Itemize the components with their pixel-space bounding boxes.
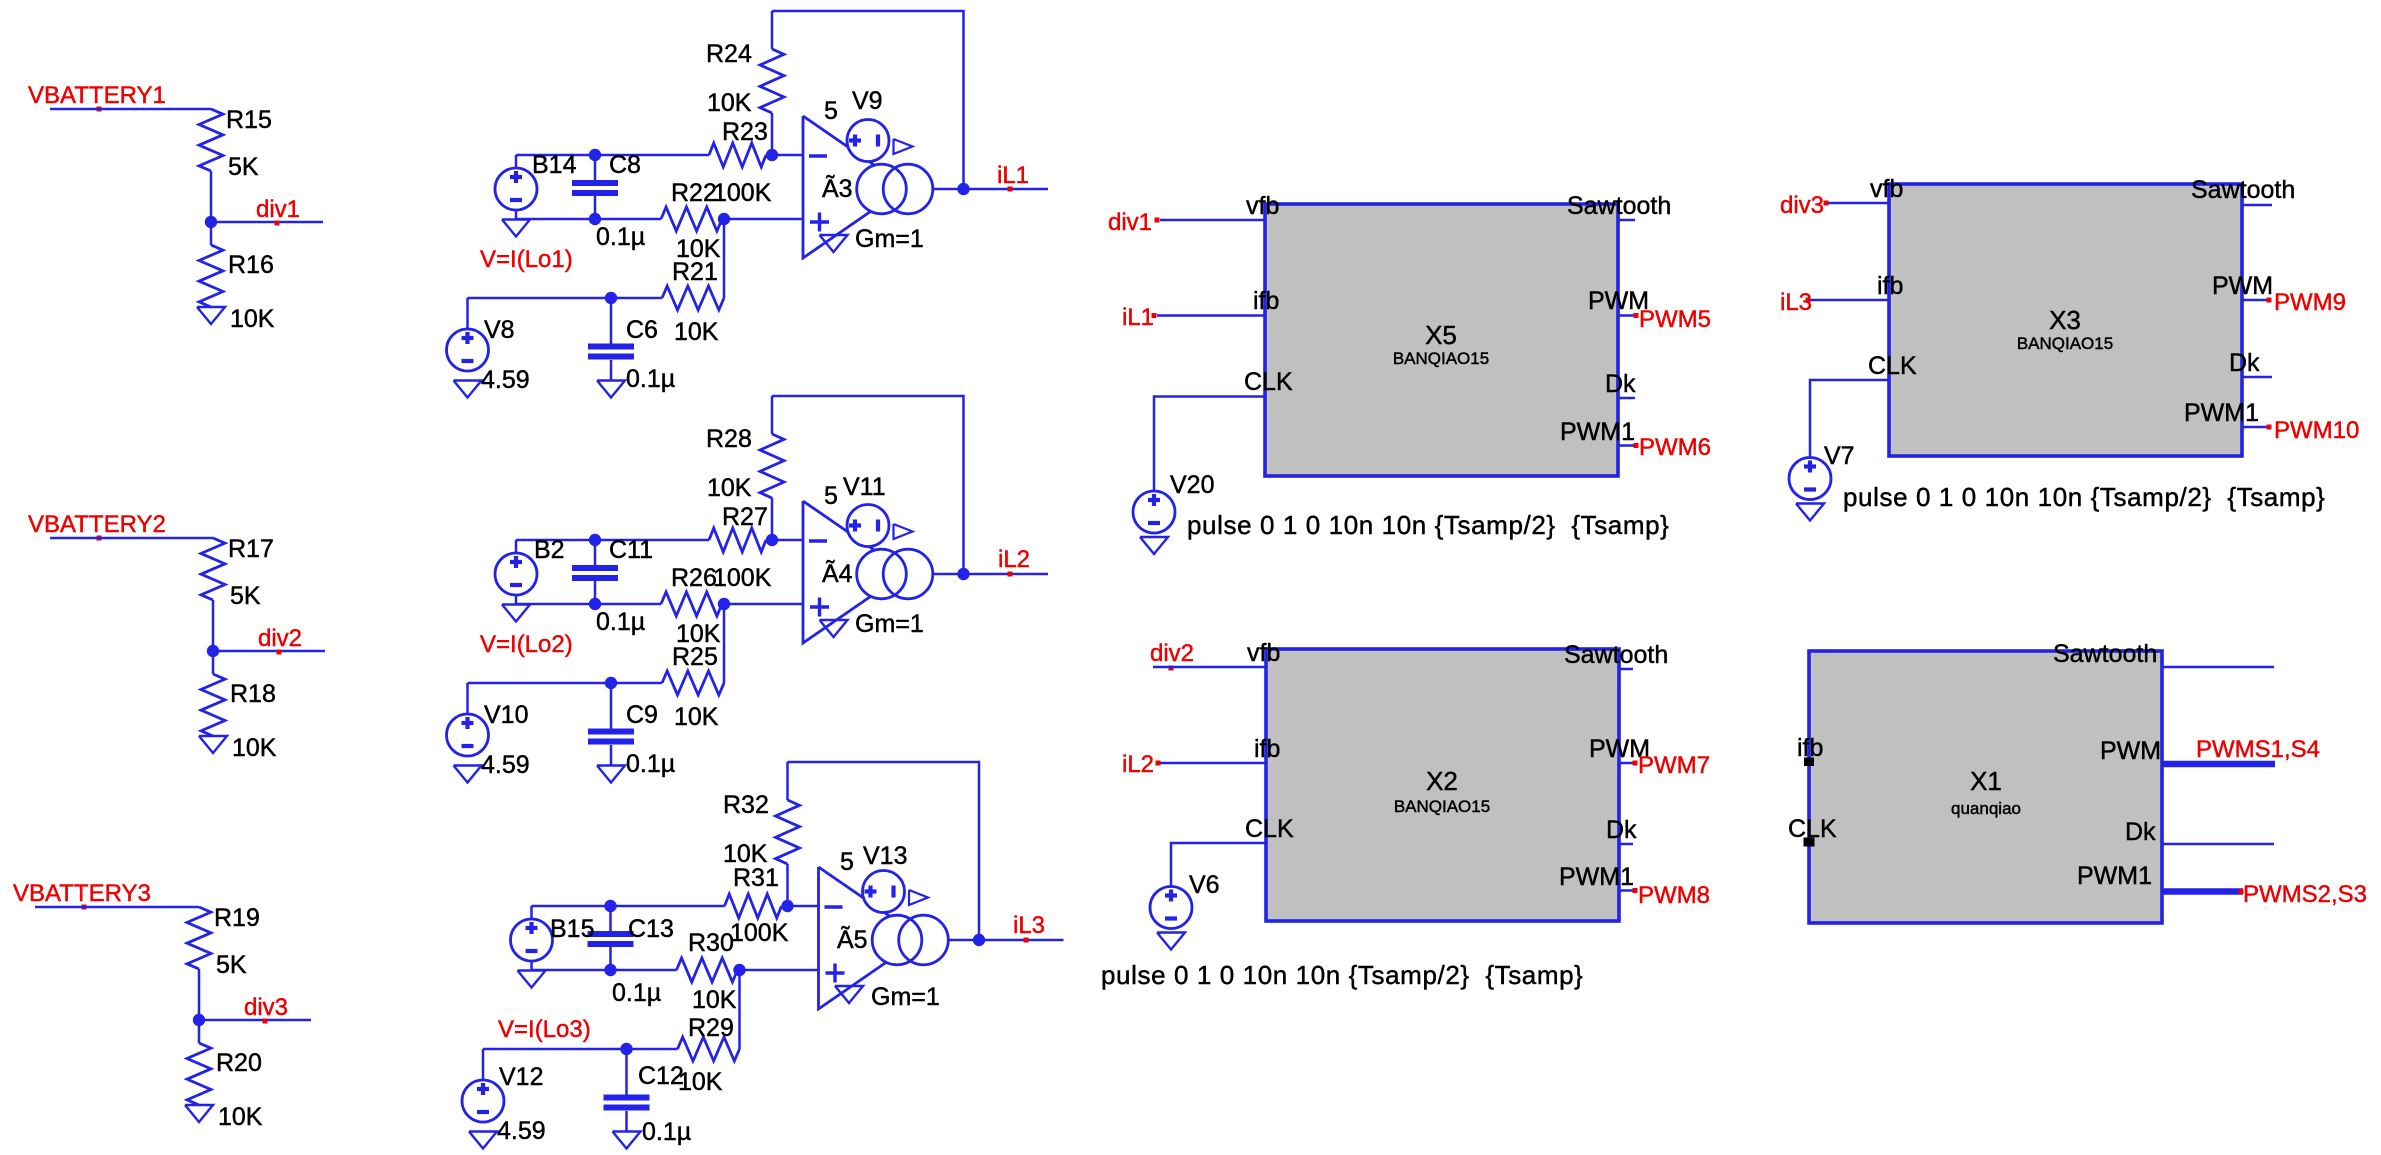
- node div3: [193, 1014, 205, 1026]
- svg-text:Ã5: Ã5: [837, 925, 868, 954]
- ground at V11: [894, 524, 913, 539]
- svg-text:Sawtooth: Sawtooth: [1564, 641, 1668, 669]
- node VBATTERY3 anchor: [82, 905, 87, 910]
- ground at Ã3 com pin: [820, 235, 848, 252]
- svg-text:0.1µ: 0.1µ: [596, 223, 645, 251]
- node PWM8 anchor: [1633, 888, 1638, 893]
- node PWM9 anchor: [2267, 298, 2272, 303]
- wire V12 to R29: [483, 1048, 678, 1051]
- svg-text:Ã4: Ã4: [822, 559, 853, 588]
- svg-text:V10: V10: [484, 701, 528, 729]
- wire B14 to R23: [516, 154, 709, 157]
- wire V10 top lead: [466, 683, 469, 714]
- wire C8 bottom lead: [594, 196, 597, 219]
- current source output Ã3: [857, 164, 907, 214]
- svg-text:R15: R15: [226, 106, 272, 134]
- svg-text:PWM1: PWM1: [1560, 418, 1635, 446]
- node plus input Ã4: [718, 598, 730, 610]
- wire feedback rail Ã5: [788, 762, 980, 940]
- svg-text:vfb: vfb: [1247, 639, 1280, 667]
- svg-text:B2: B2: [534, 536, 565, 564]
- node C13 top: [604, 900, 616, 912]
- wire R23 to inverting input: [766, 154, 803, 157]
- svg-text:iL3: iL3: [1013, 912, 1045, 939]
- svg-text:V13: V13: [863, 842, 907, 870]
- wire C8 top lead: [594, 155, 597, 180]
- resistor R18: [201, 674, 225, 736]
- node C13 bottom: [604, 964, 616, 976]
- svg-text:div3: div3: [244, 994, 288, 1021]
- wire R28 bottom lead: [771, 498, 774, 540]
- svg-text:PWMS1,S4: PWMS1,S4: [2196, 736, 2320, 763]
- wire B15 top lead: [530, 906, 533, 919]
- node PWM7 anchor: [1633, 761, 1638, 766]
- wire feedback rail Ã3: [772, 11, 964, 189]
- pin stub PWM1 X5: [1618, 444, 1637, 447]
- node C11 top: [589, 534, 601, 546]
- svg-text:BANQIAO15: BANQIAO15: [1394, 797, 1490, 816]
- wire R26 to non-inverting input: [722, 603, 803, 606]
- ground at C6: [597, 381, 625, 398]
- wire VBATTERY3: [35, 906, 199, 909]
- bus wire PWM X1: [2162, 761, 2275, 768]
- svg-text:V=I(Lo1): V=I(Lo1): [480, 246, 573, 273]
- wire C13 top lead: [609, 906, 612, 931]
- svg-text:V11: V11: [843, 473, 886, 501]
- svg-text:R25: R25: [672, 643, 718, 671]
- behavioral source B15: [511, 919, 553, 961]
- wire R27 to inverting input: [766, 539, 803, 542]
- svg-text:CLK: CLK: [1868, 352, 1917, 380]
- svg-text:R20: R20: [216, 1049, 262, 1077]
- svg-text:V12: V12: [499, 1063, 543, 1091]
- node div1 anchor at X5: [1155, 218, 1160, 223]
- node div3 anchor: [263, 1019, 268, 1024]
- resistor R16: [199, 245, 223, 307]
- wire div1: [211, 221, 323, 224]
- svg-text:10K: 10K: [232, 734, 277, 762]
- wire C9 bottom lead: [610, 745, 613, 766]
- node iL3 anchor at X3: [1806, 298, 1811, 303]
- wire V10 to R25: [468, 682, 663, 685]
- op-amp Ã4 minus sign: [809, 539, 827, 542]
- svg-text:PWM8: PWM8: [1638, 882, 1710, 909]
- svg-text:R23: R23: [722, 118, 768, 146]
- wire VBATTERY1: [50, 108, 211, 111]
- svg-text:C8: C8: [609, 151, 641, 179]
- wire C9 top lead: [610, 683, 613, 729]
- resistor R19: [187, 907, 211, 969]
- wire C12 top lead: [625, 1049, 628, 1095]
- resistor R15: [199, 109, 223, 171]
- wire iL1 to X5 ifb: [1157, 314, 1265, 317]
- node plus input Ã3: [718, 213, 730, 225]
- wire div2: [213, 650, 325, 653]
- wire B15 bottom lead: [530, 961, 533, 970]
- svg-text:X5: X5: [1425, 320, 1457, 350]
- svg-text:R18: R18: [230, 680, 276, 708]
- svg-text:Sawtooth: Sawtooth: [2053, 640, 2157, 668]
- svg-text:V=I(Lo3): V=I(Lo3): [498, 1016, 591, 1043]
- voltage source V6: [1150, 887, 1192, 929]
- svg-text:C13: C13: [628, 915, 674, 943]
- svg-text:Dk: Dk: [1605, 370, 1636, 398]
- svg-text:0.1µ: 0.1µ: [596, 608, 645, 636]
- node iL1 anchor at X5: [1152, 313, 1157, 318]
- svg-text:4.59: 4.59: [481, 751, 530, 779]
- svg-text:4.59: 4.59: [481, 366, 530, 394]
- wire V8 top lead: [466, 298, 469, 329]
- wire B14 top lead: [515, 155, 518, 168]
- node PWM6 anchor: [1634, 443, 1639, 448]
- wire R30 to non-inverting input: [738, 969, 819, 972]
- wire iL2 to X2 ifb: [1160, 762, 1266, 765]
- svg-text:R28: R28: [706, 425, 752, 453]
- voltage source V11: [847, 505, 889, 547]
- resistor R21: [662, 286, 724, 310]
- svg-text:PWM5: PWM5: [1639, 306, 1711, 333]
- pin stub Dk X5: [1618, 397, 1635, 400]
- node PWMS2,S3 anchor: [2239, 889, 2244, 894]
- svg-text:R17: R17: [228, 535, 274, 563]
- svg-text:div1: div1: [256, 196, 300, 223]
- svg-text:R32: R32: [723, 791, 769, 819]
- svg-text:Ã3: Ã3: [822, 174, 853, 203]
- svg-text:0.1µ: 0.1µ: [642, 1118, 691, 1146]
- node C6 top: [605, 292, 617, 304]
- pin stub Dk X1: [2162, 843, 2274, 846]
- wire div1 to X5 vfb: [1160, 219, 1265, 222]
- node div2 anchor: [277, 650, 282, 655]
- svg-text:B14: B14: [532, 151, 577, 179]
- svg-text:C6: C6: [626, 316, 658, 344]
- svg-text:iL1: iL1: [1122, 304, 1154, 331]
- wire div3: [199, 1019, 311, 1022]
- wire B14 bottom lead: [515, 210, 518, 219]
- wire R19 to node: [198, 969, 201, 1043]
- svg-text:ifb: ifb: [1877, 272, 1903, 300]
- ground under R20: [185, 1105, 213, 1122]
- op-amp Ã4 plus sign: [810, 605, 829, 608]
- wire R29 right lead up: [738, 970, 741, 1049]
- ground under R18: [199, 736, 227, 753]
- svg-text:4.59: 4.59: [497, 1117, 546, 1145]
- svg-text:V8: V8: [484, 316, 515, 344]
- svg-text:R26: R26: [671, 564, 717, 592]
- svg-text:5K: 5K: [216, 951, 247, 979]
- node C9 top: [605, 677, 617, 689]
- wire B2 to R26: [516, 603, 661, 606]
- resistor R32: [776, 800, 800, 864]
- svg-text:R22: R22: [671, 179, 717, 207]
- wire R31 to inverting input: [782, 905, 819, 908]
- svg-text:R16: R16: [228, 251, 274, 279]
- svg-text:vfb: vfb: [1870, 175, 1903, 203]
- subcircuit X1 box: [1809, 651, 2162, 923]
- svg-text:quanqiao: quanqiao: [1951, 799, 2021, 818]
- svg-text:PWM1: PWM1: [2184, 399, 2259, 427]
- svg-text:V6: V6: [1189, 871, 1220, 899]
- ground at Ã5 com pin: [835, 986, 863, 1003]
- node inverting input Ã5: [781, 900, 793, 912]
- capacitor C12: [604, 1095, 650, 1101]
- svg-text:10K: 10K: [707, 474, 752, 502]
- voltage source V10: [447, 714, 489, 756]
- svg-text:pulse 0 1 0 10n 10n {Tsamp/2}: pulse 0 1 0 10n 10n {Tsamp/2} {Tsamp}: [1187, 510, 1669, 540]
- pin stub PWM X5: [1618, 314, 1637, 317]
- pin stub PWM1 X2: [1619, 889, 1636, 892]
- svg-text:BANQIAO15: BANQIAO15: [2017, 334, 2113, 353]
- svg-text:100K: 100K: [730, 919, 789, 947]
- wire C13 bottom lead: [609, 947, 612, 970]
- svg-text:iL2: iL2: [998, 546, 1030, 573]
- node inverting input Ã4: [766, 534, 778, 546]
- behavioral source B14: [495, 168, 537, 210]
- pin stub Dk X3: [2242, 376, 2272, 379]
- wire R32 top lead: [786, 762, 789, 800]
- svg-text:VBATTERY1: VBATTERY1: [28, 82, 166, 109]
- svg-text:0.1µ: 0.1µ: [612, 979, 661, 1007]
- node div1 anchor: [275, 221, 280, 226]
- svg-text:pulse 0 1 0 10n 10n {Tsamp/2}: pulse 0 1 0 10n 10n {Tsamp/2} {Tsamp}: [1843, 482, 2325, 512]
- pin stub Sawtooth X3: [2242, 204, 2272, 207]
- ground at B15: [518, 971, 546, 988]
- ground at B14: [502, 220, 530, 237]
- ground at V13: [909, 890, 928, 905]
- svg-text:PWM: PWM: [2100, 737, 2161, 765]
- capacitor C8: [572, 180, 618, 186]
- resistor R31: [725, 894, 782, 918]
- wire B2 bottom lead: [515, 595, 518, 604]
- ground under R16: [197, 307, 225, 324]
- ground at V8: [454, 381, 482, 398]
- svg-text:10K: 10K: [674, 703, 719, 731]
- svg-text:V7: V7: [1824, 442, 1855, 470]
- svg-text:10K: 10K: [678, 1068, 723, 1096]
- pin stub Sawtooth X2: [1619, 668, 1633, 671]
- svg-text:5: 5: [824, 97, 838, 125]
- node PWM10 anchor: [2267, 425, 2272, 430]
- svg-text:PWMS2,S3: PWMS2,S3: [2243, 881, 2367, 908]
- pin stub Sawtooth X1: [2162, 666, 2274, 669]
- svg-text:Gm=1: Gm=1: [871, 983, 940, 1011]
- node div2: [207, 645, 219, 657]
- behavioral source B2: [495, 553, 537, 595]
- svg-text:R31: R31: [733, 864, 779, 892]
- op-amp Ã5 plus sign: [826, 971, 845, 974]
- wire V12 top lead: [482, 1049, 485, 1080]
- wire VBATTERY2: [50, 537, 213, 540]
- svg-text:div1: div1: [1108, 209, 1152, 236]
- svg-text:X3: X3: [2049, 305, 2081, 335]
- svg-text:5: 5: [840, 848, 854, 876]
- svg-text:C12: C12: [638, 1062, 684, 1090]
- svg-text:Dk: Dk: [2229, 349, 2260, 377]
- wire R24 bottom lead: [771, 113, 774, 155]
- resistor R29: [678, 1037, 740, 1061]
- svg-text:ifb: ifb: [1254, 735, 1280, 763]
- svg-text:R19: R19: [214, 904, 260, 932]
- wire B2 top lead: [515, 540, 518, 553]
- svg-text:iL1: iL1: [997, 162, 1029, 189]
- svg-text:C9: C9: [626, 701, 658, 729]
- node div3 anchor at X3: [1824, 201, 1829, 206]
- svg-text:10K: 10K: [692, 986, 737, 1014]
- svg-text:10K: 10K: [230, 305, 275, 333]
- wire Ã5 output: [948, 939, 1063, 942]
- svg-text:0.1µ: 0.1µ: [626, 750, 675, 778]
- op-amp Ã5: [819, 867, 922, 1009]
- voltage source V8: [447, 329, 489, 371]
- pin stub PWM X3: [2242, 299, 2270, 302]
- pin stub Sawtooth X5: [1618, 219, 1635, 222]
- svg-text:PWM9: PWM9: [2274, 289, 2346, 316]
- wire B2 to R27: [516, 539, 709, 542]
- wire div2 to X2 vfb: [1153, 666, 1266, 669]
- svg-text:R27: R27: [722, 503, 768, 531]
- op-amp Ã3 minus sign: [809, 154, 827, 157]
- wire C6 top lead: [610, 298, 613, 344]
- wire C6 bottom lead: [610, 360, 613, 381]
- svg-text:Sawtooth: Sawtooth: [1567, 192, 1671, 220]
- wire R28 top lead: [771, 396, 774, 434]
- svg-text:10K: 10K: [707, 89, 752, 117]
- ground at C12: [613, 1132, 641, 1149]
- resistor R25: [662, 671, 724, 695]
- op-amp Ã3 plus sign: [810, 220, 829, 223]
- svg-text:PWM6: PWM6: [1639, 434, 1711, 461]
- svg-text:10K: 10K: [674, 318, 719, 346]
- pin stub PWM1 X3: [2242, 426, 2270, 429]
- bus wire PWM1 X1: [2162, 888, 2243, 895]
- voltage source V13: [863, 871, 905, 913]
- svg-text:0.1µ: 0.1µ: [626, 365, 675, 393]
- subcircuit X5 box: [1265, 204, 1618, 476]
- wire V8 to R21: [468, 297, 663, 300]
- subcircuit X2 box: [1266, 649, 1619, 921]
- svg-text:R30: R30: [688, 929, 734, 957]
- svg-text:ifb: ifb: [1253, 287, 1279, 315]
- voltage source V20: [1133, 491, 1175, 533]
- svg-text:BANQIAO15: BANQIAO15: [1393, 349, 1489, 368]
- svg-text:VBATTERY2: VBATTERY2: [28, 511, 166, 538]
- ground at V20: [1140, 537, 1168, 554]
- svg-text:5K: 5K: [228, 153, 259, 181]
- ground at C9: [597, 766, 625, 783]
- ground at V7: [1796, 504, 1824, 521]
- svg-text:PWM1: PWM1: [2077, 862, 2152, 890]
- voltage source V12: [462, 1080, 504, 1122]
- wire V20 to X5 CLK: [1154, 397, 1265, 492]
- wire R25 right lead up: [723, 604, 726, 683]
- svg-text:Gm=1: Gm=1: [855, 225, 924, 253]
- node iL1: [957, 183, 969, 195]
- resistor R28: [760, 434, 784, 498]
- subcircuit X3 box: [1889, 184, 2242, 456]
- svg-text:CLK: CLK: [1244, 368, 1293, 396]
- resistor R30: [677, 958, 738, 982]
- op-amp Ã3: [803, 116, 906, 258]
- resistor R20: [187, 1043, 211, 1105]
- capacitor C11: [572, 565, 618, 571]
- wire R15 to node: [210, 171, 213, 245]
- svg-text:B15: B15: [550, 915, 594, 943]
- ground at V12: [469, 1132, 497, 1149]
- resistor R27: [709, 528, 766, 552]
- resistor R24: [760, 49, 784, 113]
- pin ifb X1 unconnected marker: [1804, 758, 1814, 767]
- wire Ã3 output: [933, 188, 1048, 191]
- pin stub PWM X2: [1619, 762, 1636, 765]
- wire C12 bottom lead: [625, 1111, 628, 1132]
- wire B15 to R31: [532, 905, 725, 908]
- ground at V6: [1157, 933, 1185, 950]
- node iL2 anchor: [1008, 572, 1013, 577]
- svg-text:pulse 0 1 0 10n 10n {Tsamp/2}: pulse 0 1 0 10n 10n {Tsamp/2} {Tsamp}: [1101, 960, 1583, 990]
- wire R17 to node: [212, 600, 215, 674]
- capacitor C6: [588, 344, 634, 350]
- node plus input Ã5: [733, 964, 745, 976]
- node div2 anchor at X2: [1169, 666, 1174, 671]
- voltage source V7: [1789, 458, 1831, 500]
- wire V7 to X3 CLK: [1810, 380, 1889, 457]
- svg-text:Gm=1: Gm=1: [855, 610, 924, 638]
- op-amp Ã5 minus sign: [825, 905, 843, 908]
- wire iL3 to X3 ifb: [1810, 299, 1889, 302]
- svg-text:Sawtooth: Sawtooth: [2191, 176, 2295, 204]
- svg-text:100K: 100K: [713, 564, 772, 592]
- svg-text:vfb: vfb: [1246, 192, 1279, 220]
- wire C11 top lead: [594, 540, 597, 565]
- wire Ã4 output: [933, 573, 1048, 576]
- ground at V10: [454, 766, 482, 783]
- svg-text:5: 5: [824, 482, 838, 510]
- voltage source V9: [847, 120, 889, 162]
- ground at Ã4 com pin: [820, 620, 848, 637]
- svg-text:PWM1: PWM1: [1559, 863, 1634, 891]
- svg-text:5K: 5K: [230, 582, 261, 610]
- svg-text:VBATTERY3: VBATTERY3: [13, 880, 151, 907]
- wire R24 top lead: [771, 11, 774, 49]
- ground at V9: [894, 139, 913, 154]
- wire feedback rail Ã4: [772, 396, 964, 574]
- svg-text:V9: V9: [852, 87, 883, 115]
- svg-text:X1: X1: [1970, 766, 2002, 796]
- wire V6 to X2 CLK: [1171, 843, 1266, 887]
- svg-text:100K: 100K: [713, 179, 772, 207]
- op-amp Ã4: [803, 501, 906, 643]
- node div1: [205, 216, 217, 228]
- svg-text:X2: X2: [1426, 766, 1458, 796]
- capacitor C9: [588, 729, 634, 735]
- svg-text:div2: div2: [258, 625, 302, 652]
- svg-text:Dk: Dk: [2125, 818, 2156, 846]
- capacitor C13: [588, 931, 634, 937]
- svg-text:PWM: PWM: [2212, 272, 2273, 300]
- svg-text:PWM10: PWM10: [2274, 417, 2359, 444]
- current source output Ã5: [872, 915, 922, 965]
- svg-text:div2: div2: [1150, 640, 1194, 667]
- node VBATTERY1 anchor: [97, 107, 102, 112]
- wire B15 to R30: [532, 969, 677, 972]
- current source output Ã4: [857, 549, 907, 599]
- svg-text:iL2: iL2: [1122, 751, 1154, 778]
- wire div3 to X3 vfb: [1828, 202, 1889, 205]
- svg-text:div3: div3: [1780, 192, 1824, 219]
- svg-text:V=I(Lo2): V=I(Lo2): [480, 631, 573, 658]
- resistor R23: [709, 143, 766, 167]
- wire R32 bottom lead: [786, 864, 789, 906]
